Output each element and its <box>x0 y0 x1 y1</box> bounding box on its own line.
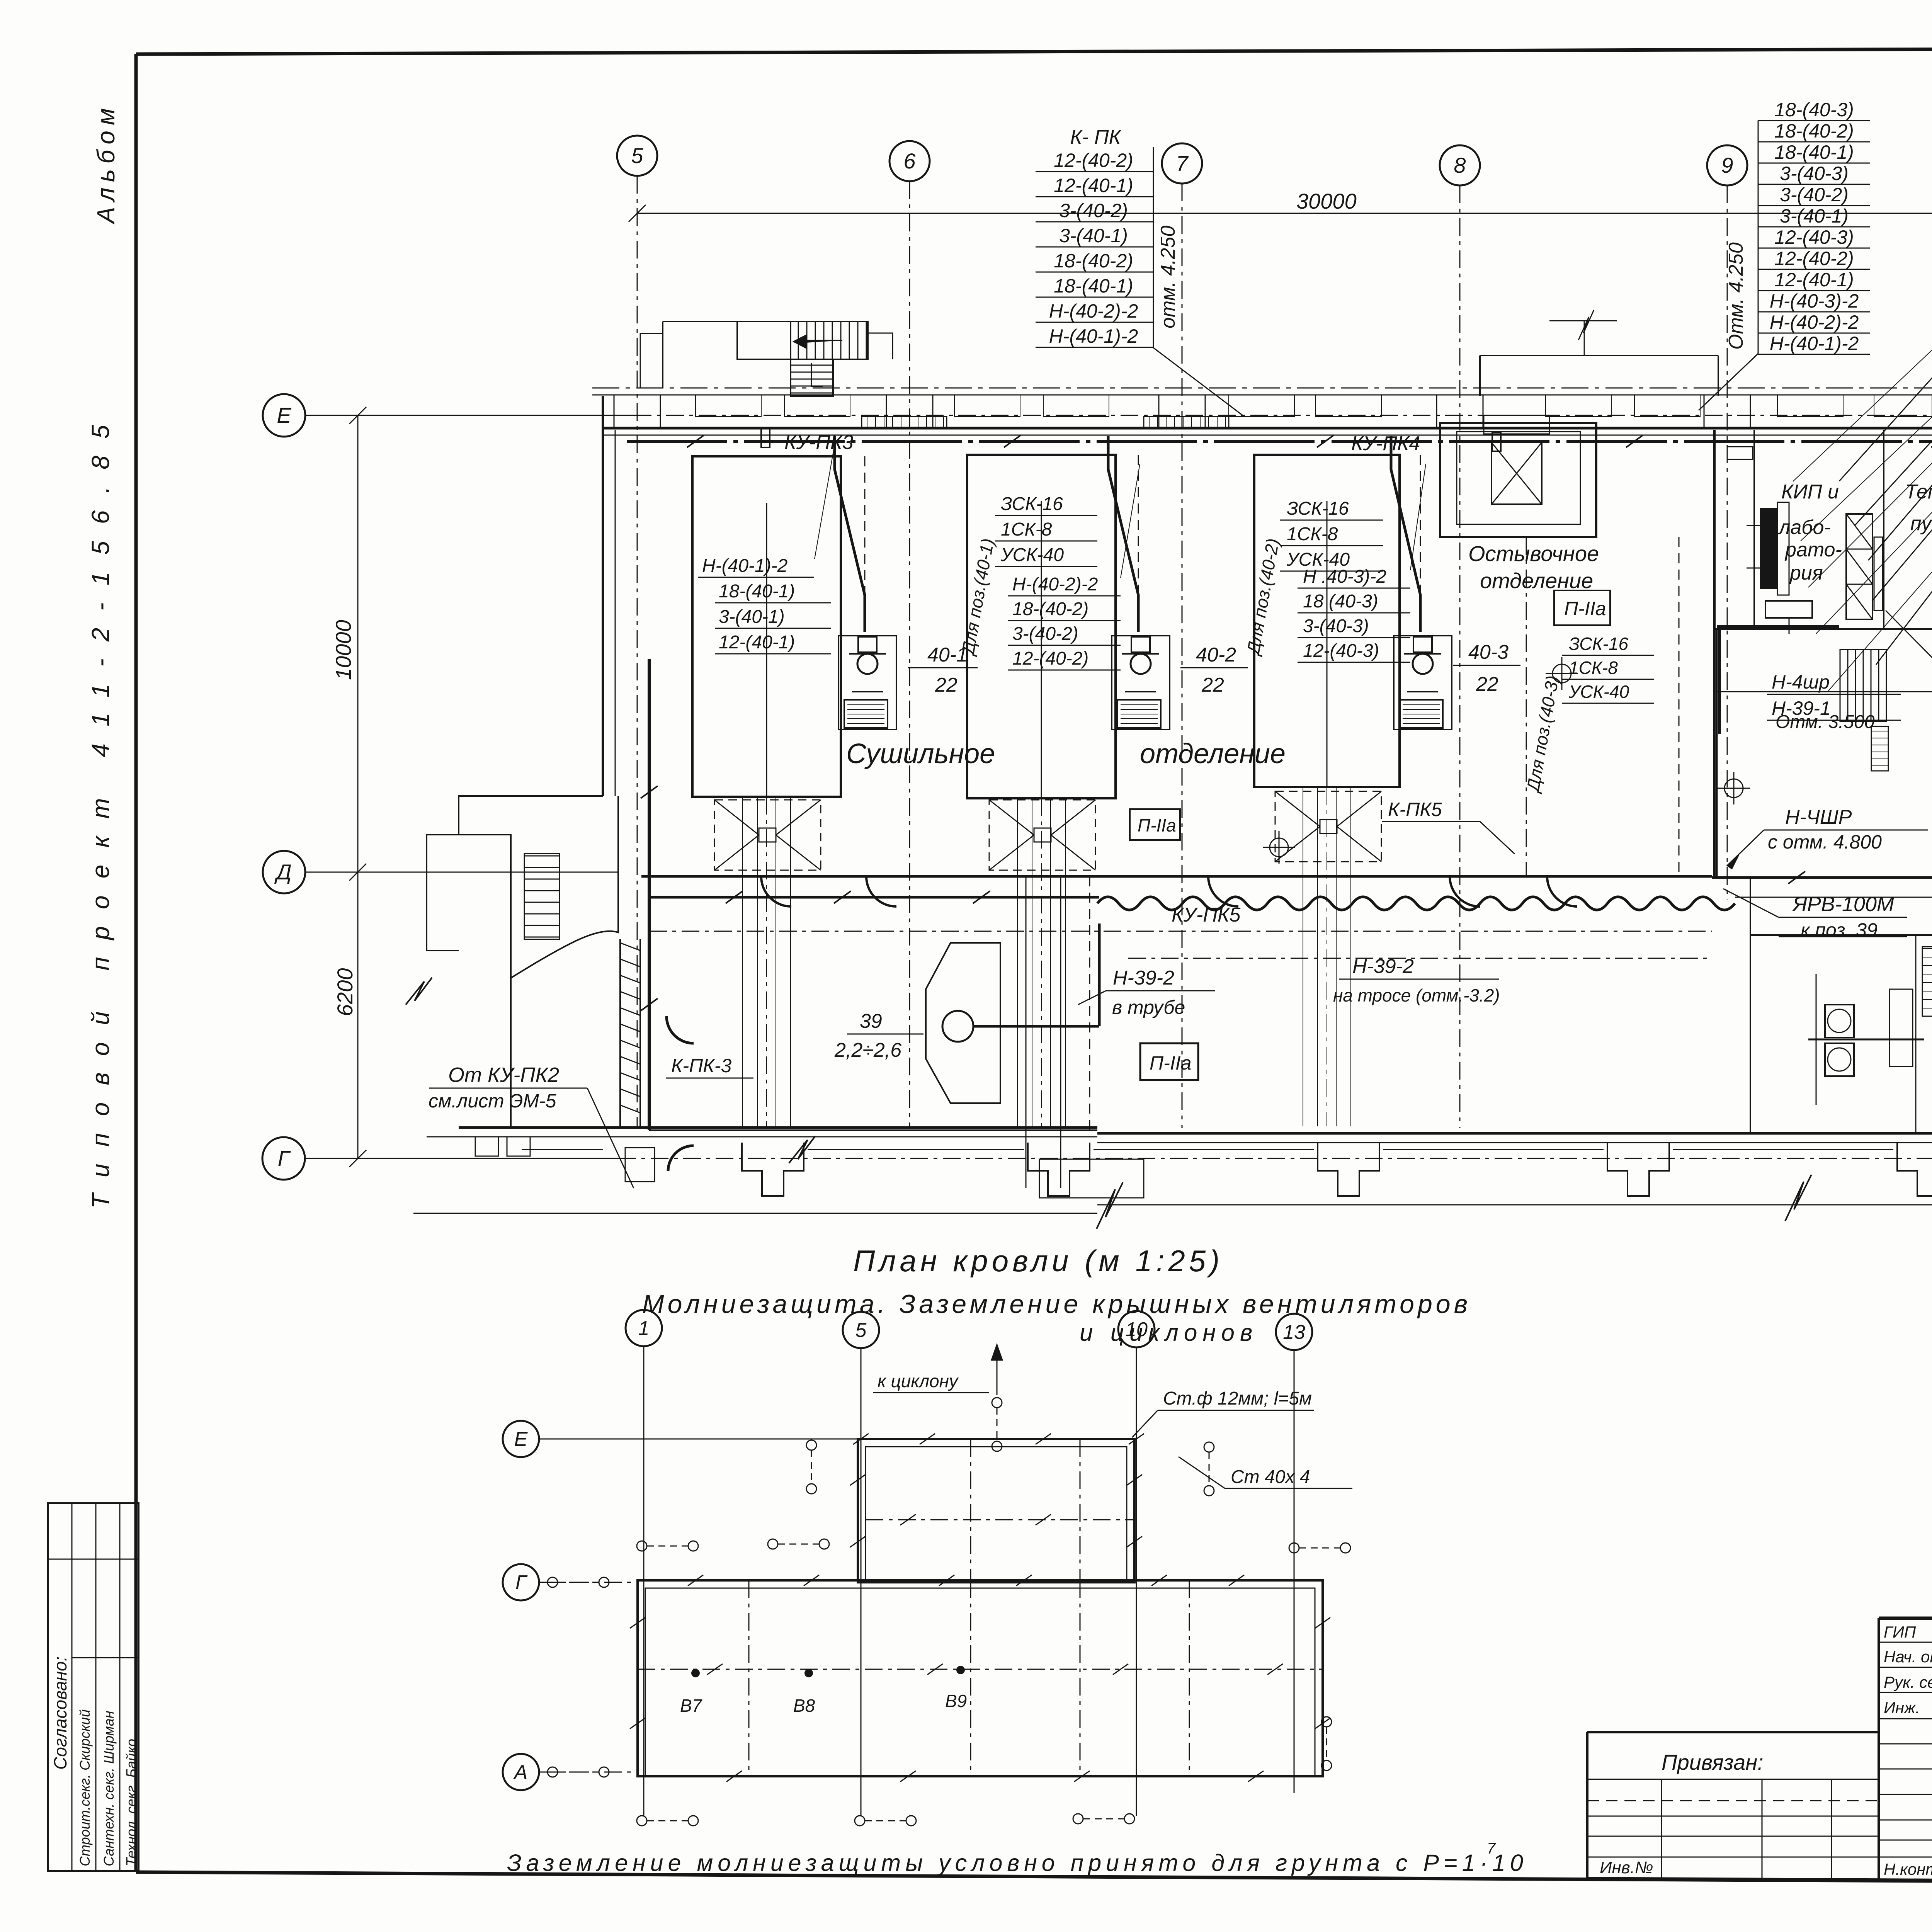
svg-text:К- ПК: К- ПК <box>1070 126 1122 148</box>
КИП table <box>1765 601 1812 618</box>
slash ticks on cable runs <box>687 435 704 447</box>
svg-text:Г: Г <box>515 1571 528 1594</box>
svg-text:Е: Е <box>514 1428 528 1451</box>
title block outer <box>1879 1617 1932 1620</box>
grid bubble 1 <box>626 1310 662 1346</box>
svg-text:ЯРВ-100М: ЯРВ-100М <box>1792 893 1894 916</box>
long leaders across plan <box>1793 193 1932 481</box>
svg-text:Заземление молниезащиты усло: Заземление молниезащиты условно принято … <box>507 1850 1528 1876</box>
leader П/БП table <box>1886 611 1932 885</box>
svg-text:22: 22 <box>1476 673 1498 696</box>
svg-text:12-(40-2): 12-(40-2) <box>1012 648 1088 669</box>
south exterior wall east part <box>1097 1132 1932 1135</box>
drying chamber 40-1 outline <box>692 456 841 797</box>
corridor south line <box>649 931 1712 932</box>
grid bubble 7 <box>1162 143 1202 184</box>
left pilasters under south wall <box>475 1137 498 1156</box>
svg-text:6200: 6200 <box>333 968 357 1016</box>
WC fixtures <box>1825 1005 1854 1037</box>
inner heavy cable run along north wall <box>627 440 1932 443</box>
svg-text:Н-(40-1)-2: Н-(40-1)-2 <box>1049 325 1138 347</box>
svg-text:Нач. отд: Нач. отд <box>1884 1648 1932 1666</box>
dimension line 30000 <box>637 213 1932 214</box>
svg-text:3-(40-2): 3-(40-2) <box>1059 200 1128 221</box>
svg-text:18-(40-2): 18-(40-2) <box>1774 120 1854 142</box>
svg-text:30000: 30000 <box>1296 189 1357 213</box>
Привязан box <box>1587 1779 1879 1780</box>
svg-text:Рук. секг.: Рук. секг. <box>1884 1673 1932 1691</box>
svg-text:Н.контр: Н.контр <box>1884 1860 1932 1878</box>
roof horizontal axes <box>539 1439 858 1440</box>
svg-text:5: 5 <box>855 1319 867 1342</box>
svg-text:12-(40-1): 12-(40-1) <box>719 632 795 653</box>
П-IIа box lower <box>1140 1043 1198 1080</box>
КИП cabinet with X sections <box>1846 514 1872 619</box>
svg-text:Н-(40-2)-2: Н-(40-2)-2 <box>1012 574 1098 595</box>
svg-text:3-(40-2): 3-(40-2) <box>1780 184 1849 206</box>
svg-text:Типовой проект 411-2-156.85: Типовой проект 411-2-156.85 <box>87 408 114 1209</box>
svg-text:В7: В7 <box>680 1696 702 1716</box>
grid bubble 5 <box>617 136 657 176</box>
wavy cable КУ-ПК5 <box>1097 897 1735 910</box>
svg-text:КУ-ПК5: КУ-ПК5 <box>1172 904 1241 926</box>
svg-text:7: 7 <box>1176 151 1189 175</box>
label П-IIа near chamber2 <box>1130 809 1180 840</box>
svg-text:КУ-ПК4: КУ-ПК4 <box>1351 432 1420 455</box>
grid bubble 10 <box>1118 1311 1155 1347</box>
svg-text:КИП и: КИП и <box>1781 481 1839 503</box>
svg-text:22: 22 <box>1201 674 1224 696</box>
svg-text:Тепло-: Тепло- <box>1905 481 1932 503</box>
porch lower flight <box>791 359 833 396</box>
cyclone shaft block <box>1440 423 1596 537</box>
svg-text:39: 39 <box>860 1010 882 1032</box>
svg-text:КУ-ПК3: КУ-ПК3 <box>784 431 854 454</box>
stair below Тепло <box>1840 650 1886 721</box>
poz.39 lamp circle <box>942 1011 973 1042</box>
svg-text:К-ПК5: К-ПК5 <box>1388 799 1442 820</box>
wall between Остывочное and КИП <box>1713 430 1716 876</box>
corridor east heavy line <box>1712 876 1932 879</box>
svg-text:Е: Е <box>277 403 291 427</box>
svg-text:отделение: отделение <box>1480 568 1593 593</box>
roof line tick marks <box>920 1434 935 1444</box>
svg-text:3-(40-2): 3-(40-2) <box>1012 624 1078 644</box>
extra partition dash lines Остывочное <box>1526 537 1527 876</box>
svg-text:Ст.ф 12мм; l=5м: Ст.ф 12мм; l=5м <box>1163 1388 1312 1409</box>
cable drop gooseneck to fan 40-1 <box>835 436 865 632</box>
svg-text:Отм. 3.500: Отм. 3.500 <box>1776 712 1875 732</box>
svg-text:18 (40-3): 18 (40-3) <box>1303 591 1378 612</box>
small step block north <box>868 333 893 359</box>
svg-text:1: 1 <box>638 1317 650 1340</box>
svg-text:Н-(40-2)-2: Н-(40-2)-2 <box>1770 311 1859 333</box>
grid bubble Е <box>503 1421 539 1457</box>
west annex stair treads <box>524 855 560 857</box>
svg-text:3-(40-3): 3-(40-3) <box>1780 163 1849 184</box>
svg-text:13: 13 <box>1283 1321 1305 1344</box>
svg-text:Н-(40-3)-2: Н-(40-3)-2 <box>1770 290 1859 312</box>
heavy riser cable on west side <box>648 659 651 1130</box>
grid bubble А <box>503 1754 539 1790</box>
svg-text:7: 7 <box>1487 1840 1496 1857</box>
svg-text:1СК-8: 1СК-8 <box>1001 519 1052 540</box>
svg-text:в трубе: в трубе <box>1112 997 1185 1018</box>
corridor door arcs <box>761 876 791 906</box>
svg-text:рия: рия <box>1789 562 1823 584</box>
svg-text:3-(40-1): 3-(40-1) <box>1780 205 1849 227</box>
cable drop gooseneck to fan 40-3 <box>1391 436 1420 632</box>
svg-text:12-(40-3): 12-(40-3) <box>1774 226 1854 248</box>
svg-text:10: 10 <box>1125 1318 1148 1341</box>
svg-text:12-(40-3): 12-(40-3) <box>1303 641 1379 661</box>
svg-text:УСК-40: УСК-40 <box>1000 545 1064 565</box>
roof platform outline above cols 8-9 <box>1480 355 1718 356</box>
chamber axis continuation dash lines <box>864 456 866 595</box>
stack leader diagonals <box>815 444 835 559</box>
svg-text:18-(40-1): 18-(40-1) <box>1774 141 1854 163</box>
svg-text:Технол. секг. Байко: Технол. секг. Байко <box>123 1739 139 1866</box>
svg-text:От КУ-ПК2: От КУ-ПК2 <box>448 1063 559 1087</box>
svg-text:Сушильное: Сушильное <box>846 738 995 769</box>
grid bubble Д <box>263 851 305 893</box>
south wall window lines <box>522 1149 603 1150</box>
svg-text:18-(40-2): 18-(40-2) <box>1054 250 1133 272</box>
duct riser pairs below chambers <box>742 797 743 1126</box>
svg-text:П-IIа: П-IIа <box>1138 815 1176 835</box>
svg-text:12-(40-1): 12-(40-1) <box>1054 175 1133 196</box>
svg-text:Отм. 4.250: Отм. 4.250 <box>1725 242 1747 350</box>
svg-text:Молниезащита. Заземление крыш: Молниезащита. Заземление крышных вентиля… <box>642 1289 1471 1319</box>
floor wall south of КИП rooms <box>1714 628 1932 630</box>
svg-text:40-2: 40-2 <box>1196 644 1236 666</box>
svg-text:18-(40-2): 18-(40-2) <box>1012 599 1088 619</box>
svg-text:с отм. 4.800: с отм. 4.800 <box>1768 831 1882 853</box>
porch west wall <box>662 321 663 388</box>
svg-text:12-(40-1): 12-(40-1) <box>1774 269 1854 291</box>
grid bubble 9 <box>1707 145 1747 185</box>
north wall pilaster band <box>614 395 660 428</box>
svg-text:и циклонов: и циклонов <box>1080 1320 1258 1346</box>
grid bubble Г <box>503 1564 539 1600</box>
ground break marks <box>789 1136 815 1163</box>
svg-text:12-(40-2): 12-(40-2) <box>1774 248 1854 269</box>
west stair annex outline <box>459 796 618 978</box>
south exterior wall west part <box>459 1126 1097 1129</box>
КИП panel bar <box>1761 509 1776 588</box>
svg-text:Инж.: Инж. <box>1884 1699 1920 1717</box>
svg-text:3-(40-1): 3-(40-1) <box>719 607 785 627</box>
svg-text:Согласовано:: Согласовано: <box>50 1656 70 1770</box>
ground line below south wall <box>413 1213 1097 1214</box>
label КУ-ПК3 <box>761 428 770 447</box>
north porch stair <box>791 321 868 359</box>
grounding electrodes <box>637 1541 647 1551</box>
svg-text:Сантехн. секг. Ширман: Сантехн. секг. Ширман <box>101 1711 117 1866</box>
vertical dimension line 10000 / 6200 <box>357 415 359 1158</box>
svg-text:К-ПК-3: К-ПК-3 <box>671 1055 731 1077</box>
leader from col9 table <box>1699 354 1758 410</box>
Согласовано rotated table <box>48 1503 139 1871</box>
svg-text:Н-ЧШР: Н-ЧШР <box>1785 806 1852 828</box>
drying chamber 40-3 outline <box>1254 455 1400 787</box>
svg-text:А: А <box>513 1761 528 1784</box>
svg-text:18-(40-1): 18-(40-1) <box>719 581 795 602</box>
vertical service shaft by poz.39 <box>1026 876 1027 1188</box>
annex entry porch <box>427 835 459 951</box>
svg-text:10000: 10000 <box>331 620 355 680</box>
svg-text:В8: В8 <box>793 1696 815 1716</box>
wall hatch strip left corridor <box>620 943 640 951</box>
roof lower rectangle <box>638 1580 1323 1776</box>
drying chamber 40-2 outline <box>967 455 1116 798</box>
svg-text:5: 5 <box>631 143 643 168</box>
sheet border frame <box>136 47 1932 54</box>
svg-text:18-(40-3): 18-(40-3) <box>1774 99 1854 121</box>
svg-text:ЗСК-16: ЗСК-16 <box>1287 498 1349 519</box>
svg-text:П-IIа: П-IIа <box>1564 598 1606 619</box>
svg-text:Н-39-2: Н-39-2 <box>1113 967 1174 989</box>
svg-text:Привязан:: Привязан: <box>1662 1750 1764 1774</box>
west exterior wall <box>602 396 604 796</box>
svg-text:40-3: 40-3 <box>1468 641 1509 663</box>
leader from К-ПК table <box>1153 348 1244 417</box>
svg-text:1СК-8: 1СК-8 <box>1287 524 1338 544</box>
svg-text:к поз. 39: к поз. 39 <box>1801 919 1878 941</box>
svg-text:ГИП: ГИП <box>1884 1623 1916 1641</box>
svg-text:Альбом: Альбом <box>92 103 120 225</box>
svg-text:12-(40-2): 12-(40-2) <box>1054 150 1133 171</box>
vertical axis lines cols 5..10 <box>637 176 638 1128</box>
svg-text:рато-: рато- <box>1784 539 1842 561</box>
svg-text:Ст 40х 4: Ст 40х 4 <box>1231 1467 1310 1487</box>
svg-text:Г: Г <box>278 1146 291 1170</box>
svg-text:к циклону: к циклону <box>878 1371 959 1391</box>
grid bubble 6 <box>889 141 930 181</box>
lower hall dash-dot mid line <box>1128 958 1708 959</box>
svg-text:9: 9 <box>1721 153 1733 177</box>
svg-text:Остывочное: Остывочное <box>1468 541 1599 566</box>
corridor heavy cable dash line <box>649 896 1099 899</box>
roof upper rectangle <box>858 1439 1134 1582</box>
svg-text:3-(40-1): 3-(40-1) <box>1059 225 1128 247</box>
lower-left mini table <box>1661 1779 1662 1879</box>
corridor wall north of Д <box>641 875 1712 878</box>
grid bubble Е <box>263 394 305 437</box>
left porch at south door <box>625 1148 655 1182</box>
svg-text:ЗСК-16: ЗСК-16 <box>1001 494 1063 514</box>
svg-text:Н .40-3)-2: Н .40-3)-2 <box>1303 566 1386 587</box>
south wall pilasters <box>742 1143 804 1196</box>
svg-text:Н-(40-2)-2: Н-(40-2)-2 <box>1049 300 1138 322</box>
roof vertical axes <box>643 1347 645 1816</box>
partition hatch column <box>1922 947 1932 1016</box>
svg-text:Строит.секг. Скирский: Строит.секг. Скирский <box>77 1709 93 1866</box>
roof interior grid <box>861 1447 862 1580</box>
poz.39 hexagonal unit <box>926 943 1000 1103</box>
svg-text:П-IIа: П-IIа <box>1150 1052 1191 1074</box>
svg-text:УСК-40: УСК-40 <box>1568 682 1629 702</box>
svg-text:см.лист ЭМ-5: см.лист ЭМ-5 <box>429 1090 556 1112</box>
svg-text:В9: В9 <box>945 1691 967 1711</box>
svg-text:8: 8 <box>1454 153 1466 177</box>
svg-text:План кровли (м 1:25): План кровли (м 1:25) <box>853 1244 1223 1278</box>
svg-text:ЗСК-16: ЗСК-16 <box>1569 634 1628 654</box>
svg-text:22: 22 <box>935 674 957 696</box>
svg-text:Инв.№: Инв.№ <box>1600 1858 1653 1877</box>
crosshair survey symbols <box>1553 664 1571 683</box>
svg-text:1СК-8: 1СК-8 <box>1569 658 1618 678</box>
svg-text:3-(40-3): 3-(40-3) <box>1303 616 1369 636</box>
label П-IIа near Остывочное <box>1554 590 1610 625</box>
grid bubble 13 <box>1276 1314 1312 1350</box>
svg-text:Д: Д <box>274 860 291 884</box>
svg-text:отделение: отделение <box>1140 738 1286 769</box>
svg-text:2,2÷2,6: 2,2÷2,6 <box>834 1039 901 1061</box>
svg-text:Н-(40-1)-2: Н-(40-1)-2 <box>1770 333 1859 354</box>
heavy cable along КИП floor <box>1717 625 1839 628</box>
grid bubble 8 <box>1440 145 1480 185</box>
svg-text:отм. 4.250: отм. 4.250 <box>1157 226 1179 328</box>
svg-text:Н-(40-1)-2: Н-(40-1)-2 <box>702 556 787 576</box>
exhaust X-boxes under chambers <box>714 800 821 870</box>
roof fan points В7 В8 В9 <box>691 1669 700 1677</box>
svg-text:18-(40-1): 18-(40-1) <box>1054 275 1133 297</box>
staff signature table <box>1879 1642 1932 1643</box>
wall between КИП and Теплопункт <box>1883 430 1884 629</box>
svg-text:6: 6 <box>903 149 916 173</box>
wall window hatches on north wall <box>862 417 947 428</box>
building: north exterior wall (row Е) <box>592 388 1932 389</box>
cable drop gooseneck to fan 40-2 <box>1108 436 1138 632</box>
КИП west inner wall <box>1753 430 1755 629</box>
grid bubble Г <box>262 1137 305 1180</box>
svg-text:Н-4шр: Н-4шр <box>1772 671 1830 693</box>
svg-text:на тросе (отм.-3.2): на тросе (отм.-3.2) <box>1333 985 1500 1005</box>
fan units under chambers <box>838 636 896 730</box>
grid bubble 5 <box>843 1312 879 1348</box>
lower-right rooms walls <box>1750 876 1751 1133</box>
